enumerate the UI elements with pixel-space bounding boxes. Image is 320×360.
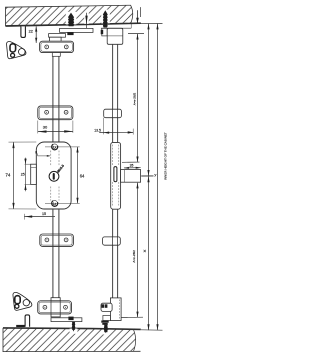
- dimension 30 (bracket width): [37, 121, 73, 134]
- lock case (left view): [36, 142, 71, 209]
- dimension 26 (latch): [122, 162, 141, 169]
- right rod (lower run): [113, 209, 118, 298]
- svg-text:INNER HEIGHT OF THE CABINET: INNER HEIGHT OF THE CABINET: [163, 132, 167, 180]
- guide bracket 4 (left view): [38, 301, 72, 314]
- left rod (lower run): [53, 209, 59, 298]
- guide bracket 2 (left view): [38, 106, 73, 120]
- bolt hole (white) in top panel, side view: [101, 10, 110, 24]
- extension line above bottom panel to dimension stack: [141, 329, 163, 331]
- bottom panel (left view): [3, 328, 91, 352]
- label Ø16.5 with leader: [56, 164, 65, 174]
- nut under crank bar: [67, 32, 73, 35]
- guide bracket 3 (left view): [40, 234, 74, 246]
- nut on bottom crank: [68, 317, 73, 321]
- crank arm edge (side view, under panel): [101, 27, 131, 29]
- key cylinder: [49, 171, 59, 181]
- hidden rod channel (dashed): [51, 151, 59, 201]
- svg-text:25: 25: [21, 173, 25, 177]
- dimension 13.5: [94, 118, 133, 135]
- top crank lower bar (offset step): [49, 34, 66, 38]
- top keeper plate (left, with slot + screw holes): [7, 41, 26, 58]
- follower slot (side view): [114, 167, 117, 182]
- pin piece (side view top): [102, 28, 107, 36]
- svg-text:74: 74: [5, 173, 11, 178]
- dimension 64 (hole spacing): [45, 147, 85, 204]
- latch block (side view): [121, 170, 141, 183]
- dimension 25 (latch): [21, 158, 31, 192]
- bottom fixing bolt (threaded into bottom panel): [72, 322, 76, 332]
- bottom coupling block (side view): [110, 298, 121, 321]
- rod over bracket 3: [53, 234, 59, 246]
- svg-text:15: 15: [42, 212, 46, 216]
- bottom panel (side view with break arc): [91, 329, 141, 352]
- top block (side view): [107, 28, 123, 44]
- latch centre extension to dimension junction: [141, 175, 154, 177]
- dimension x (latch centre to bottom panel): [144, 176, 150, 330]
- small gap dimension at top (down arrow): [128, 10, 144, 33]
- extension line under top panel to dimension stack: [122, 22, 163, 24]
- striker pin under top panel (left view): [21, 26, 26, 37]
- dimension y (top panel to latch centre): [142, 24, 156, 177]
- svg-text:A=x-26/2: A=x-26/2: [132, 92, 136, 105]
- svg-text:64: 64: [80, 174, 85, 179]
- bottom striker pin: [25, 315, 30, 327]
- dimension A upper (rod length): [132, 34, 138, 162]
- guide bracket 2 (side view): [104, 109, 122, 118]
- bolt hole (white) in bottom panel, side view: [102, 330, 109, 335]
- dimension 15 (below case): [24, 212, 55, 219]
- top panel (left view, hatched cabinet top): [6, 6, 92, 26]
- dimension 74 (case height): [5, 142, 36, 209]
- lock case (side view): [111, 142, 121, 209]
- dimension 8 (leader): [35, 151, 50, 157]
- bolt hole (white) in top panel: [66, 12, 77, 25]
- dimension A lower (rod length): [121, 183, 143, 318]
- bottom crank (side view): [103, 316, 111, 321]
- right rod (upper run): [113, 44, 118, 142]
- bolt hole (white) in bottom panel: [70, 329, 78, 334]
- svg-text:22: 22: [29, 29, 33, 33]
- top crank upper bar: [60, 28, 93, 32]
- svg-text:8: 8: [35, 151, 37, 155]
- lock case bottom screw: [52, 200, 58, 206]
- screw head stack: [101, 321, 108, 323]
- thin locating pin (left view): [85, 13, 87, 28]
- pin hole (white) in top panel: [84, 12, 89, 24]
- top bolt (side view): [103, 10, 108, 27]
- top panel (side view, hatched, with break arc): [91, 5, 141, 24]
- left rod (upper run): [53, 56, 59, 142]
- svg-text:30: 30: [43, 124, 48, 129]
- bottom screw (side view, threaded into panel): [104, 325, 108, 334]
- small block under bracket 1: [52, 53, 60, 57]
- bottom keeper plate: [13, 292, 32, 310]
- small screw beside bottom pin: [16, 325, 25, 327]
- latch bolt (left view, protrudes left): [31, 164, 37, 184]
- guide bracket 1 (left view): [40, 41, 74, 52]
- top fixing bolt (left view, threaded into panel): [68, 13, 74, 27]
- rod coupling (top, left view): [50, 37, 62, 44]
- rod over bracket 2: [53, 106, 59, 120]
- guide bracket 4 (side view): [101, 303, 112, 311]
- bottom coupling (left view): [51, 298, 60, 317]
- svg-text:A=x-26/2: A=x-26/2: [132, 250, 136, 263]
- svg-text:13.5: 13.5: [94, 128, 101, 132]
- guide bracket 3 (side view): [103, 237, 121, 245]
- dimension inner height: [156, 24, 167, 331]
- lock case top screw: [52, 144, 58, 150]
- svg-text:26: 26: [130, 164, 134, 168]
- coupling lines over bracket 4: [51, 301, 60, 314]
- bottom crank bar: [51, 318, 82, 322]
- dimension 22 (pin drop): [29, 26, 38, 43]
